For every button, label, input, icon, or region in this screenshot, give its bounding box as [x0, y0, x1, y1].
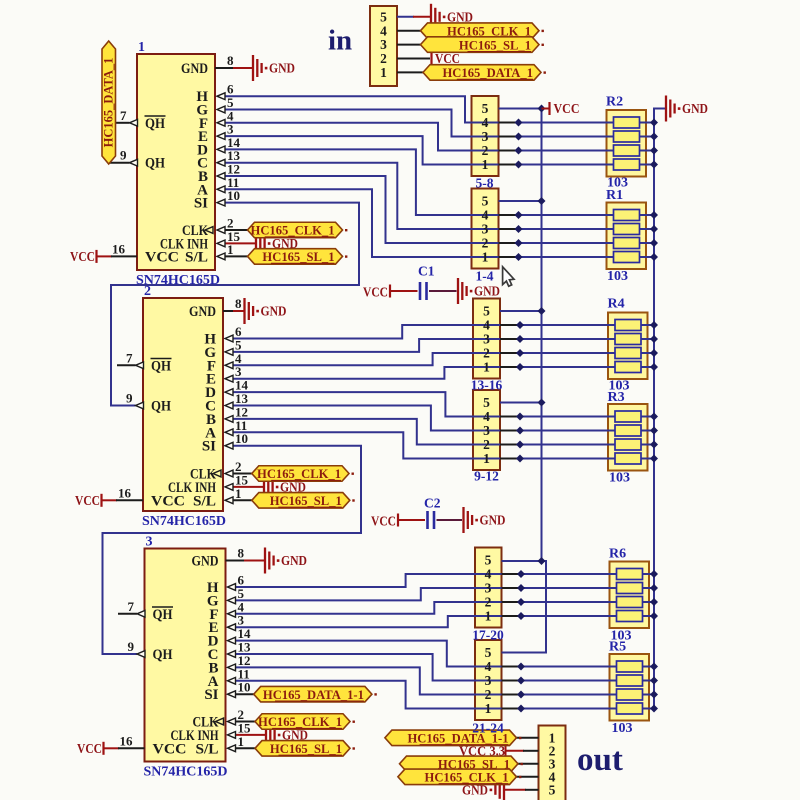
svg-text:2: 2: [485, 595, 492, 610]
svg-text:7: 7: [128, 599, 135, 614]
wire U1 pin H to header 5-8 pin4 and resistor: [225, 96, 614, 122]
svg-text:4: 4: [485, 659, 492, 674]
resistor network R4 outer body: [608, 313, 648, 380]
svg-text:5: 5: [482, 101, 489, 116]
GND symbol U1 pin15: [255, 230, 257, 256]
connector header 1-4 body: [472, 189, 499, 269]
header 13-16 and 9-12 right side pin stubs: [500, 324, 520, 326]
svg-text:VCC: VCC: [371, 514, 396, 529]
svg-text:3: 3: [482, 129, 489, 144]
VCC symbol in header pin2: [430, 52, 432, 65]
svg-text:R1: R1: [606, 188, 623, 203]
wire U3 pin A to header 21-24 pin1 and resistor: [235, 681, 617, 709]
wire U1 CLK pin2 to flag: [225, 229, 249, 231]
GND symbol U2 pin15: [263, 474, 265, 500]
svg-text:2: 2: [483, 346, 490, 361]
wire U2 CLK pin2 to flag: [233, 473, 253, 475]
svg-text:C1: C1: [418, 264, 435, 279]
wire U1 pin7 QH\ to net label HC165_DATA_1: [115, 122, 130, 124]
net label HC165_CLK_1 at U2 pin2: [252, 466, 349, 482]
svg-text:8: 8: [235, 296, 242, 311]
wire U2 pin E to header 13-16 pin1 and resistor: [233, 367, 616, 379]
svg-text:10: 10: [238, 680, 251, 695]
svg-text:2: 2: [482, 236, 489, 251]
connector header in body: [370, 6, 397, 86]
wire U1 pin A to header 1-4 pin1 and resistor: [225, 189, 614, 257]
svg-text:103: 103: [609, 471, 630, 486]
svg-text:16: 16: [118, 485, 132, 500]
wire U1 pin C to header 1-4 pin3 and resistor: [225, 163, 614, 229]
U3 right side pin arrows: [228, 584, 236, 591]
net label HC165_SL_1 at U2 pin1: [252, 493, 350, 509]
svg-text:GND: GND: [189, 304, 216, 320]
svg-text:9: 9: [128, 639, 135, 654]
svg-text:5: 5: [549, 782, 556, 797]
svg-text:VCC: VCC: [363, 285, 388, 300]
svg-text:SI: SI: [202, 439, 216, 455]
wire out header pin1 to flag: [517, 737, 539, 739]
junction dots on header 13-16 and 9-12 pin rows: [516, 321, 524, 329]
wire U3 CLK pin2 to flag: [235, 721, 255, 723]
wire in header pin2 to VCC: [397, 58, 430, 60]
net label HC165_CLK_1 at in header pin4: [421, 23, 540, 39]
svg-text:S/L: S/L: [185, 249, 208, 265]
svg-text:SI: SI: [204, 687, 218, 703]
wire in header pin1 to flag: [397, 71, 423, 73]
svg-text:103: 103: [607, 269, 628, 284]
svg-text:21-24: 21-24: [472, 721, 504, 736]
svg-text:HC165_CLK_1: HC165_CLK_1: [251, 224, 335, 238]
svg-text:7: 7: [120, 108, 127, 123]
wire U1 pin B to header 1-4 pin2 and resistor: [225, 176, 614, 243]
wire out header pin3 to flag: [518, 763, 539, 765]
svg-text:4: 4: [482, 208, 489, 223]
wire VCC rail jog to header 21-24 pin 5: [502, 561, 547, 653]
wire R3 right pins to GND rail: [641, 416, 654, 418]
resistor network R6 outer body: [610, 562, 650, 629]
connector header 17-20 body: [475, 548, 502, 628]
svg-text:GND: GND: [181, 61, 208, 77]
svg-text:13-16: 13-16: [471, 378, 503, 393]
svg-text:1: 1: [138, 40, 145, 55]
connector header 9-12 body: [473, 390, 500, 470]
svg-text:7: 7: [126, 350, 133, 365]
net label HC165_DATA_1-1 at out header pin1: [385, 730, 517, 746]
wire U3 CLK INH pin15 to GND: [235, 734, 265, 736]
wire header 9-12 pin 5 to VCC rail: [500, 402, 542, 404]
svg-text:VCC: VCC: [77, 741, 102, 756]
svg-text:8: 8: [238, 546, 245, 561]
svg-text:16: 16: [112, 241, 126, 256]
svg-text:R4: R4: [608, 297, 625, 312]
wire U1 pin F to header 5-8 pin2 and resistor: [225, 123, 614, 151]
IC U1 SN74HC165D body rectangle: [137, 54, 215, 270]
svg-text:QH: QH: [153, 607, 173, 623]
svg-text:16: 16: [120, 733, 134, 748]
resistor network R2 outer body: [607, 110, 647, 177]
net label HC165_DATA_1-1 at U3 SI: [254, 686, 372, 702]
svg-text:3: 3: [482, 222, 489, 237]
svg-text:17-20: 17-20: [472, 628, 504, 643]
wire U3 S/L pin1 to flag: [235, 747, 255, 749]
wire U2 pin16 to VCC: [102, 499, 117, 501]
svg-text:4: 4: [483, 318, 490, 333]
svg-text:HC165_SL_1: HC165_SL_1: [262, 250, 334, 264]
wire U3 SI pin10 to flag HC165_DATA_1-1: [235, 693, 254, 695]
svg-text:GND: GND: [269, 61, 295, 76]
svg-text:R5: R5: [609, 640, 626, 655]
svg-text:9-12: 9-12: [474, 469, 499, 484]
svg-text:HC165_DATA_1: HC165_DATA_1: [443, 66, 534, 80]
U2 right side pin arrows: [225, 335, 233, 342]
svg-text:2: 2: [483, 437, 490, 452]
GND symbol top right: [665, 96, 667, 122]
svg-text:1: 1: [483, 451, 490, 466]
wire R5 right pins to GND rail: [643, 666, 655, 668]
wire U3 pin D to header 21-24 pin4 and resistor: [235, 641, 617, 667]
svg-text:C2: C2: [424, 496, 441, 511]
svg-text:HC165_SL_1: HC165_SL_1: [459, 38, 531, 52]
svg-text:R3: R3: [608, 390, 625, 405]
wire header 1-4 pin 5 to VCC rail: [499, 200, 542, 202]
net label HC165_SL_1 at in header pin3: [421, 37, 540, 53]
VCC symbol top middle: [542, 108, 549, 110]
svg-text:1: 1: [380, 65, 387, 80]
svg-text:SI: SI: [194, 196, 208, 212]
wire U2 pin D to header 9-12 pin4 and resistor: [233, 392, 616, 416]
wire net U2 SI to U3 QH cascade: [103, 446, 362, 654]
resistor elements of network R1 value 103: [614, 210, 640, 221]
wire in header pin5 to GND: [397, 16, 414, 18]
svg-text:VCC: VCC: [145, 249, 179, 265]
header 5-8 and 1-4 right side pin stubs: [499, 122, 519, 124]
svg-text:3: 3: [483, 332, 490, 347]
U1 right side pin arrows: [217, 93, 225, 100]
wire in header pin3 to flag: [397, 44, 421, 46]
net label HC165_CLK_1 at out header pin4: [398, 769, 517, 785]
header 17-20 and 21-24 right side pin stubs: [502, 573, 522, 575]
net label HC165_CLK_1 at U1 pin2: [248, 222, 343, 238]
wire U1 pin9 QH to net label HC165_DATA_1: [109, 162, 130, 164]
svg-text:5: 5: [483, 304, 490, 319]
svg-text:HC165_CLK_1: HC165_CLK_1: [425, 771, 509, 785]
svg-text:3: 3: [380, 37, 387, 52]
svg-text:GND: GND: [261, 304, 287, 319]
svg-text:VCC: VCC: [153, 741, 187, 757]
wire out header pin5 to GND: [505, 789, 526, 791]
wire in header pin4 to flag: [397, 30, 421, 32]
net label HC165_CLK_1 at U3 pin2: [255, 714, 350, 730]
junction dots on header 5-8 and 1-4 pin rows: [515, 119, 523, 127]
mouse cursor: [503, 267, 514, 286]
svg-text:2: 2: [380, 51, 387, 66]
wire U3 pin7 stub: [118, 613, 137, 615]
IC U3 SN74HC165D body rectangle: [145, 549, 226, 762]
resistor elements of network R3 value 103: [615, 411, 641, 422]
wire U3 pin8 to GND: [226, 560, 246, 562]
wire R4 right pins to GND rail: [641, 324, 654, 326]
connector header 5-8 body: [472, 96, 499, 176]
svg-text:out: out: [577, 742, 623, 778]
wire U2 pin C to header 9-12 pin3 and resistor: [233, 406, 616, 431]
svg-text:HC165_CLK_1: HC165_CLK_1: [258, 715, 342, 729]
GND symbol U2 pin8: [243, 298, 245, 324]
wire R6 right pins to GND rail: [643, 573, 655, 575]
svg-text:QH: QH: [151, 399, 171, 415]
connector header 21-24 body: [475, 640, 502, 720]
svg-text:VCC: VCC: [151, 493, 185, 509]
wire U2 pin A to header 9-12 pin1 and resistor: [233, 432, 616, 458]
wire GND vertical rail right of resistor networks: [654, 109, 666, 709]
wire U1 S/L pin1 to flag: [225, 255, 249, 257]
GND symbol U3 pin15: [265, 722, 267, 748]
connector header 13-16 body: [473, 299, 500, 379]
svg-text:GND: GND: [281, 553, 307, 568]
wire VCC vertical rail: [499, 109, 542, 562]
wire U3 pin16 to VCC: [104, 747, 119, 749]
svg-text:5: 5: [482, 194, 489, 209]
resistor elements of network R6 value 103: [617, 569, 643, 580]
svg-text:HC165_SL_1: HC165_SL_1: [270, 742, 342, 756]
svg-text:HC165_DATA_1: HC165_DATA_1: [102, 58, 116, 148]
svg-text:2: 2: [485, 687, 492, 702]
resistor elements of network R2 value 103: [614, 117, 640, 128]
svg-text:VCC: VCC: [554, 101, 580, 116]
svg-text:9: 9: [126, 391, 133, 406]
svg-text:R2: R2: [606, 95, 623, 110]
wire U2 pin7 stub: [117, 364, 136, 366]
svg-text:3: 3: [483, 423, 490, 438]
junction dots on GND rail: [650, 119, 658, 127]
svg-text:GND: GND: [447, 9, 473, 24]
wire U1 pin D to header 1-4 pin4 and resistor: [225, 149, 614, 215]
svg-text:4: 4: [483, 409, 490, 424]
svg-text:4: 4: [380, 23, 387, 38]
net label HC165_SL_1 at U3 pin1: [255, 741, 350, 757]
wire U3 pin F to header 17-20 pin2 and resistor: [235, 602, 617, 614]
svg-text:10: 10: [235, 431, 248, 446]
svg-text:1: 1: [482, 157, 489, 172]
GND symbol in header pin5: [430, 4, 432, 30]
resistor network R5 outer body: [610, 654, 650, 721]
wire U2 pin8 to GND: [223, 310, 234, 312]
svg-text:9: 9: [120, 148, 127, 163]
svg-text:SN74HC165D: SN74HC165D: [144, 765, 228, 780]
svg-text:VCC: VCC: [75, 493, 100, 508]
U3 left side pin arrows pins 7 and 9: [137, 610, 145, 617]
svg-text:SN74HC165D: SN74HC165D: [142, 514, 226, 529]
svg-text:VCC: VCC: [70, 249, 95, 264]
resistor network R3 outer body: [608, 404, 648, 471]
svg-text:3: 3: [146, 535, 153, 550]
svg-text:1: 1: [235, 486, 242, 501]
svg-text:GND: GND: [480, 513, 506, 528]
junction dots on header 17-20 and 21-24 pin rows: [517, 570, 525, 578]
svg-text:S/L: S/L: [193, 493, 216, 509]
GND symbol out header pin5: [494, 785, 496, 795]
svg-text:QH: QH: [145, 116, 165, 132]
resistor elements of network R4 value 103: [615, 320, 641, 331]
svg-text:3: 3: [485, 581, 492, 596]
wire U3 pin E to header 17-20 pin1 and resistor: [235, 616, 617, 627]
svg-text:5: 5: [485, 553, 492, 568]
net label HC165_DATA_1 at in header pin1: [423, 65, 541, 81]
svg-text:4: 4: [485, 567, 492, 582]
svg-text:4: 4: [482, 115, 489, 130]
wire U1 pin16 to VCC: [97, 255, 112, 257]
svg-text:in: in: [328, 25, 352, 57]
GND symbol U3 pin8: [264, 548, 266, 574]
svg-text:1: 1: [485, 701, 492, 716]
GND symbol U1 pin8: [252, 55, 254, 81]
svg-text:2: 2: [144, 284, 151, 299]
wire R2 right pins to GND rail: [640, 122, 655, 124]
wire U3 pin B to header 21-24 pin2 and resistor: [235, 667, 617, 694]
svg-text:QH: QH: [151, 358, 171, 374]
svg-text:GND: GND: [682, 101, 708, 116]
svg-text:GND: GND: [474, 284, 500, 299]
wire U1 pin8 to GND: [215, 67, 234, 69]
svg-text:5: 5: [483, 395, 490, 410]
wire header 13-16 pin 5 to VCC rail: [500, 310, 542, 312]
wire U1 pin G to header 5-8 pin3 and resistor: [225, 110, 614, 137]
wire U2 pin B to header 9-12 pin2 and resistor: [233, 419, 616, 445]
resistor elements of network R5 value 103: [617, 661, 643, 672]
svg-text:5: 5: [380, 9, 387, 24]
wire U2 pin F to header 13-16 pin2 and resistor: [233, 353, 616, 365]
wire U2 pin H to header 13-16 pin4 and resistor: [233, 325, 616, 339]
svg-text:S/L: S/L: [196, 741, 219, 757]
connector header out body: [539, 726, 566, 800]
wire out header pin2 to VCC 3.3: [506, 750, 524, 752]
junction dots on VCC rail: [538, 105, 546, 113]
svg-text:1: 1: [238, 734, 245, 749]
svg-text:8: 8: [227, 53, 234, 68]
svg-text:GND: GND: [192, 554, 219, 570]
wire U3 pin G to header 17-20 pin3 and resistor: [235, 588, 617, 600]
svg-text:1: 1: [485, 609, 492, 624]
IC U2 SN74HC165D body rectangle: [143, 298, 223, 511]
net label HC165_SL_1 at out header pin3: [400, 756, 519, 772]
svg-text:5: 5: [485, 645, 492, 660]
svg-text:QH: QH: [145, 156, 165, 172]
svg-text:QH: QH: [153, 647, 173, 663]
svg-text:VCC: VCC: [435, 51, 460, 66]
wire net U1 SI to U2 QH cascade: [111, 203, 359, 406]
svg-text:HC165_SL_1: HC165_SL_1: [270, 494, 342, 508]
svg-text:1: 1: [483, 360, 490, 375]
wire U2 S/L pin1 to flag: [233, 499, 253, 501]
net label HC165_DATA_1 vertical flag at U1: [102, 41, 116, 164]
net label HC165_SL_1 at U1 pin1: [248, 249, 343, 265]
wire U3 pin C to header 21-24 pin3 and resistor: [235, 654, 617, 681]
wire U3 pin H to header 17-20 pin4 and resistor: [235, 574, 617, 587]
svg-text:HC165_CLK_1: HC165_CLK_1: [257, 467, 341, 481]
svg-text:1: 1: [482, 250, 489, 265]
U2 left side pin arrows pins 7 and 9: [136, 362, 144, 369]
svg-text:HC165_DATA_1-1: HC165_DATA_1-1: [263, 688, 364, 702]
wire U2 pin G to header 13-16 pin3 and resistor: [233, 339, 616, 352]
svg-text:1: 1: [227, 242, 234, 257]
wire U1 CLK INH pin15 to GND: [225, 242, 256, 244]
svg-text:3: 3: [485, 673, 492, 688]
wire U2 CLK INH pin15 to GND: [233, 486, 264, 488]
svg-text:R6: R6: [609, 547, 626, 562]
svg-text:1-4: 1-4: [476, 269, 494, 284]
wire out header pin4 to flag: [517, 776, 539, 778]
svg-text:103: 103: [612, 721, 633, 736]
wire U1 pin E to header 5-8 pin1 and resistor: [225, 136, 614, 164]
svg-text:5-8: 5-8: [476, 176, 494, 191]
U1 left side pin arrows pins 7 and 9: [130, 119, 138, 126]
svg-text:2: 2: [482, 143, 489, 158]
resistor network R1 outer body: [607, 203, 647, 270]
wire R1 right pins to GND rail: [640, 214, 655, 216]
svg-text:10: 10: [227, 188, 240, 203]
